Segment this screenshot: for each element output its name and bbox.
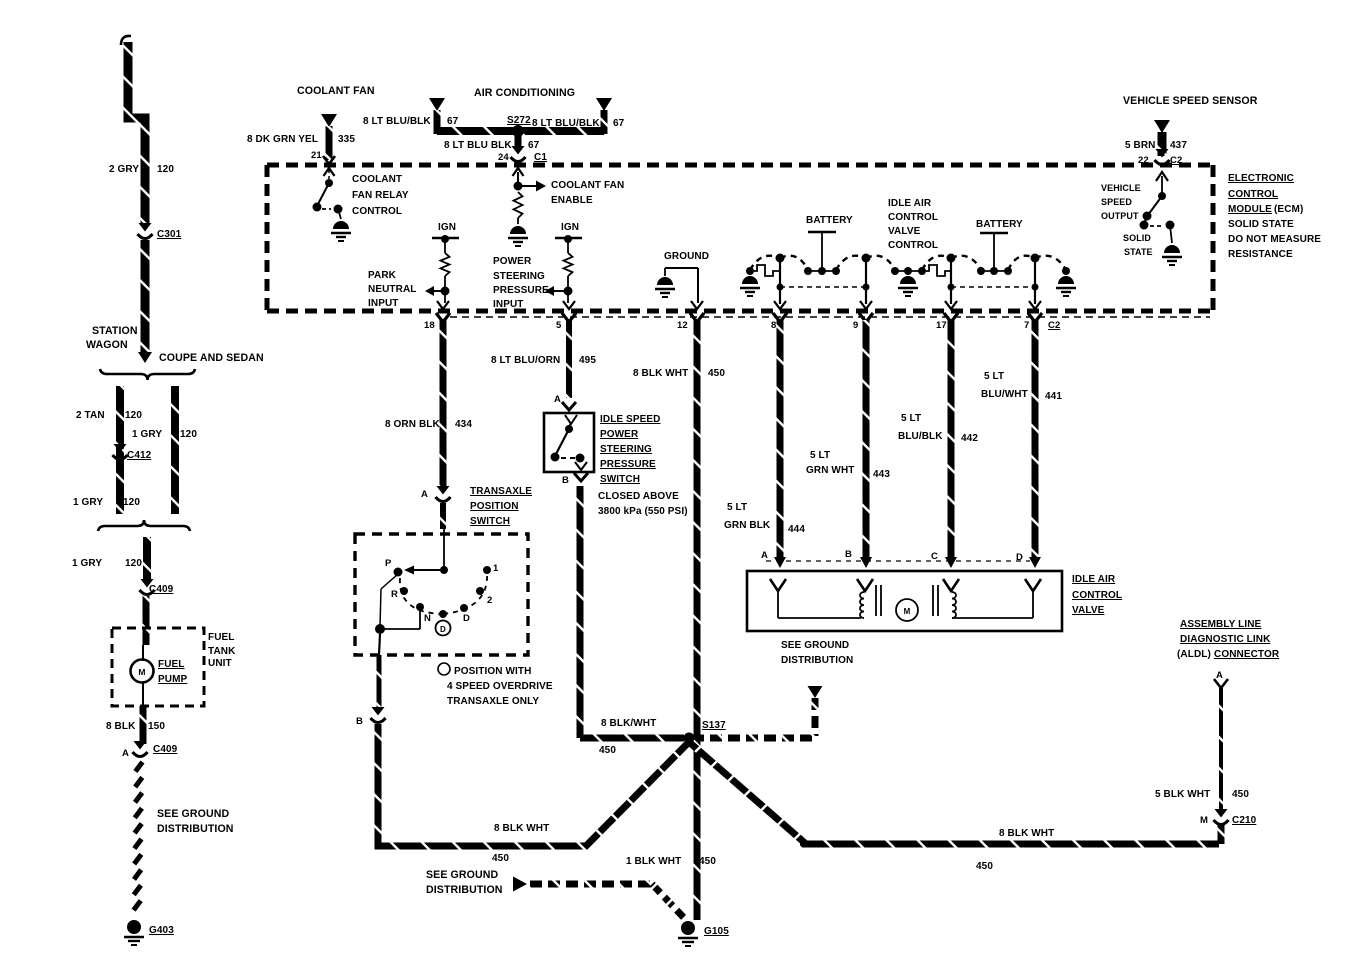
svg-text:INPUT: INPUT [368, 298, 399, 309]
svg-text:TANK: TANK [208, 646, 236, 657]
svg-text:8 LT BLU/BLK: 8 LT BLU/BLK [363, 116, 431, 127]
svg-text:PRESSURE: PRESSURE [493, 285, 549, 296]
svg-text:C409: C409 [149, 584, 174, 595]
svg-text:GRN BLK: GRN BLK [724, 520, 771, 531]
svg-text:443: 443 [873, 469, 890, 480]
svg-text:8 ORN BLK: 8 ORN BLK [385, 419, 440, 430]
svg-text:UNIT: UNIT [208, 658, 232, 669]
svg-text:120: 120 [125, 410, 142, 421]
svg-text:M: M [1200, 815, 1208, 826]
svg-text:FAN RELAY: FAN RELAY [352, 190, 409, 201]
svg-text:FUEL: FUEL [158, 659, 185, 670]
svg-text:CONTROL: CONTROL [888, 240, 938, 251]
svg-text:C2: C2 [1048, 320, 1060, 331]
svg-text:CLOSED ABOVE: CLOSED ABOVE [598, 491, 679, 502]
svg-text:8 LT BLU BLK: 8 LT BLU BLK [444, 140, 512, 151]
svg-text:434: 434 [455, 419, 472, 430]
svg-text:8 BLK: 8 BLK [106, 721, 136, 732]
svg-text:5: 5 [556, 320, 562, 331]
svg-text:120: 120 [157, 164, 174, 175]
svg-text:OUTPUT: OUTPUT [1101, 211, 1139, 221]
svg-text:CONNECTOR: CONNECTOR [1214, 649, 1280, 660]
svg-text:B: B [845, 549, 852, 560]
svg-text:7: 7 [1024, 320, 1029, 331]
svg-text:8 BLK WHT: 8 BLK WHT [494, 823, 549, 834]
svg-text:IDLE SPEED: IDLE SPEED [600, 414, 660, 425]
svg-text:B: B [562, 475, 569, 486]
svg-text:442: 442 [961, 433, 978, 444]
svg-text:PRESSURE: PRESSURE [600, 459, 656, 470]
svg-text:BATTERY: BATTERY [976, 219, 1023, 230]
svg-text:TRANSAXLE ONLY: TRANSAXLE ONLY [447, 696, 539, 707]
svg-text:1: 1 [493, 563, 499, 574]
svg-text:P: P [385, 558, 392, 569]
svg-text:67: 67 [447, 116, 459, 127]
svg-text:495: 495 [579, 355, 596, 366]
svg-text:441: 441 [1045, 391, 1062, 402]
svg-text:1 BLK WHT: 1 BLK WHT [626, 856, 681, 867]
svg-text:PUMP: PUMP [158, 674, 188, 685]
svg-text:8 LT BLU/BLK: 8 LT BLU/BLK [532, 118, 600, 129]
svg-text:C1: C1 [534, 152, 547, 163]
svg-text:8 BLK WHT: 8 BLK WHT [633, 368, 688, 379]
svg-text:450: 450 [599, 745, 616, 756]
svg-text:S137: S137 [702, 720, 726, 731]
svg-text:ENABLE: ENABLE [551, 195, 593, 206]
svg-text:120: 120 [125, 558, 142, 569]
svg-text:IGN: IGN [438, 222, 456, 233]
svg-text:IDLE AIR: IDLE AIR [888, 198, 932, 209]
svg-text:POSITION WITH: POSITION WITH [454, 666, 531, 677]
svg-text:COOLANT: COOLANT [352, 174, 402, 185]
svg-text:18: 18 [424, 320, 435, 331]
svg-text:VEHICLE SPEED SENSOR: VEHICLE SPEED SENSOR [1123, 95, 1258, 107]
svg-text:5 BRN: 5 BRN [1125, 140, 1156, 151]
svg-text:4 SPEED OVERDRIVE: 4 SPEED OVERDRIVE [447, 681, 553, 692]
svg-text:17: 17 [936, 320, 947, 331]
svg-text:(ALDL): (ALDL) [1177, 649, 1211, 660]
svg-text:335: 335 [338, 134, 355, 145]
svg-text:(ECM): (ECM) [1274, 204, 1303, 215]
svg-text:5 LT: 5 LT [901, 413, 921, 424]
svg-text:SWITCH: SWITCH [470, 516, 510, 527]
svg-text:A: A [1216, 670, 1223, 681]
svg-text:S272: S272 [507, 115, 531, 126]
svg-text:D: D [440, 625, 446, 634]
svg-text:GRN WHT: GRN WHT [806, 465, 854, 476]
svg-text:VALVE: VALVE [888, 226, 921, 237]
svg-text:5 BLK WHT: 5 BLK WHT [1155, 789, 1210, 800]
svg-text:NEUTRAL: NEUTRAL [368, 284, 416, 295]
svg-text:BLU/WHT: BLU/WHT [981, 389, 1028, 400]
svg-text:SEE GROUND: SEE GROUND [781, 640, 849, 651]
svg-text:R: R [391, 589, 398, 600]
svg-text:POSITION: POSITION [470, 501, 519, 512]
svg-text:DIAGNOSTIC LINK: DIAGNOSTIC LINK [1180, 634, 1271, 645]
svg-text:CONTROL: CONTROL [888, 212, 938, 223]
svg-text:450: 450 [708, 368, 725, 379]
svg-text:STATE: STATE [1124, 247, 1153, 257]
svg-text:450: 450 [1232, 789, 1249, 800]
svg-text:C409: C409 [153, 744, 178, 755]
svg-text:M: M [138, 667, 145, 677]
svg-text:POWER: POWER [600, 429, 639, 440]
svg-text:COUPE AND SEDAN: COUPE AND SEDAN [159, 352, 264, 364]
svg-text:67: 67 [528, 140, 540, 151]
svg-text:SWITCH: SWITCH [600, 474, 640, 485]
svg-text:3800 kPa (550 PSI): 3800 kPa (550 PSI) [598, 506, 688, 517]
svg-text:ASSEMBLY LINE: ASSEMBLY LINE [1180, 619, 1262, 630]
svg-text:IDLE AIR: IDLE AIR [1072, 574, 1116, 585]
svg-text:GROUND: GROUND [664, 251, 709, 262]
svg-text:D: D [463, 613, 470, 624]
svg-text:444: 444 [788, 524, 805, 535]
svg-text:COOLANT FAN: COOLANT FAN [551, 180, 624, 191]
svg-text:9: 9 [853, 320, 858, 331]
svg-text:BATTERY: BATTERY [806, 215, 853, 226]
svg-text:M: M [904, 607, 911, 616]
svg-text:150: 150 [148, 721, 165, 732]
svg-text:VEHICLE: VEHICLE [1101, 183, 1141, 193]
svg-text:A: A [554, 394, 561, 405]
svg-text:SEE GROUND: SEE GROUND [426, 869, 498, 881]
svg-text:A: A [761, 550, 768, 561]
svg-text:RESISTANCE: RESISTANCE [1228, 249, 1293, 260]
svg-text:SPEED: SPEED [1101, 197, 1132, 207]
svg-text:AIR CONDITIONING: AIR CONDITIONING [474, 87, 575, 99]
svg-text:1 GRY: 1 GRY [132, 429, 162, 440]
svg-text:8 DK GRN YEL: 8 DK GRN YEL [247, 134, 318, 145]
svg-text:A: A [421, 489, 428, 500]
svg-text:450: 450 [699, 856, 716, 867]
svg-text:C210: C210 [1232, 815, 1257, 826]
svg-text:2: 2 [487, 595, 492, 606]
svg-text:C2: C2 [1170, 155, 1182, 166]
svg-text:B: B [356, 716, 363, 727]
svg-text:IGN: IGN [561, 222, 579, 233]
svg-text:DISTRIBUTION: DISTRIBUTION [781, 655, 853, 666]
svg-text:1 GRY: 1 GRY [73, 497, 103, 508]
svg-text:8: 8 [771, 320, 776, 331]
svg-text:5 LT: 5 LT [810, 450, 830, 461]
svg-text:STEERING: STEERING [493, 271, 545, 282]
svg-text:BLU/BLK: BLU/BLK [898, 431, 943, 442]
svg-text:2 TAN: 2 TAN [76, 410, 105, 421]
svg-text:STEERING: STEERING [600, 444, 652, 455]
svg-text:120: 120 [123, 497, 140, 508]
svg-text:FUEL: FUEL [208, 632, 235, 643]
svg-text:ELECTRONIC: ELECTRONIC [1228, 173, 1294, 184]
svg-text:DISTRIBUTION: DISTRIBUTION [426, 884, 503, 896]
svg-text:24: 24 [498, 152, 509, 163]
svg-text:CONTROL: CONTROL [1228, 189, 1278, 200]
svg-text:WAGON: WAGON [86, 339, 128, 351]
svg-text:12: 12 [677, 320, 688, 331]
svg-text:2 GRY: 2 GRY [109, 164, 139, 175]
svg-text:8 BLK/WHT: 8 BLK/WHT [601, 718, 656, 729]
svg-text:CONTROL: CONTROL [1072, 590, 1122, 601]
svg-text:21: 21 [311, 150, 322, 161]
svg-text:22: 22 [1138, 155, 1149, 166]
svg-text:437: 437 [1170, 140, 1187, 151]
svg-text:COOLANT FAN: COOLANT FAN [297, 85, 375, 97]
svg-text:SOLID: SOLID [1123, 233, 1151, 243]
svg-text:POWER: POWER [493, 256, 532, 267]
svg-text:STATION: STATION [92, 325, 138, 337]
svg-text:INPUT: INPUT [493, 299, 524, 310]
svg-text:PARK: PARK [368, 270, 397, 281]
svg-text:450: 450 [492, 853, 509, 864]
svg-text:VALVE: VALVE [1072, 605, 1105, 616]
svg-text:A: A [122, 748, 129, 759]
svg-text:1 GRY: 1 GRY [72, 558, 102, 569]
svg-text:120: 120 [180, 429, 197, 440]
svg-text:8 LT BLU/ORN: 8 LT BLU/ORN [491, 355, 560, 366]
svg-text:5 LT: 5 LT [727, 502, 747, 513]
svg-text:G403: G403 [149, 925, 174, 936]
svg-text:5 LT: 5 LT [984, 371, 1004, 382]
svg-text:CONTROL: CONTROL [352, 206, 402, 217]
svg-text:SEE GROUND: SEE GROUND [157, 808, 229, 820]
svg-text:8 BLK WHT: 8 BLK WHT [999, 828, 1054, 839]
svg-text:450: 450 [976, 861, 993, 872]
svg-text:DISTRIBUTION: DISTRIBUTION [157, 823, 234, 835]
svg-text:C: C [931, 551, 938, 562]
svg-text:C412: C412 [127, 450, 152, 461]
svg-text:DO NOT MEASURE: DO NOT MEASURE [1228, 234, 1321, 245]
svg-text:MODULE: MODULE [1228, 204, 1272, 215]
svg-text:SOLID STATE: SOLID STATE [1228, 219, 1294, 230]
svg-text:G105: G105 [704, 926, 729, 937]
svg-text:67: 67 [613, 118, 625, 129]
svg-text:C301: C301 [157, 229, 182, 240]
svg-text:N: N [424, 613, 431, 624]
svg-text:TRANSAXLE: TRANSAXLE [470, 486, 532, 497]
